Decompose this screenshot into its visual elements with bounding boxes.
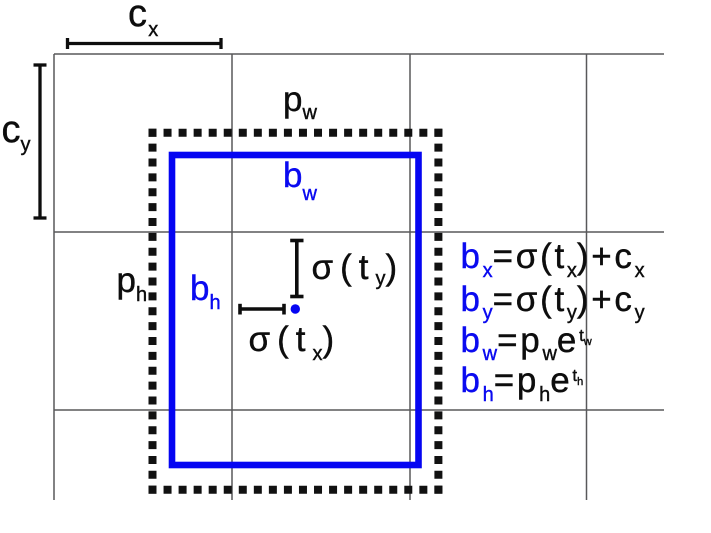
grid vertical line 3	[409, 54, 411, 500]
grid vertical line 2	[231, 54, 233, 500]
sigma(t_x) offset bracket	[240, 304, 284, 315]
equation b_y	[461, 282, 645, 317]
equation b_w	[461, 323, 592, 358]
equation b_x	[461, 239, 645, 274]
grid horizontal line 2	[54, 231, 664, 233]
label p_h	[117, 263, 148, 298]
equation b_h	[461, 363, 584, 398]
grid vertical line 4	[586, 54, 588, 500]
label b_w	[283, 158, 317, 193]
label c_x	[128, 0, 158, 33]
box center point (blue dot)	[291, 304, 300, 313]
prior anchor box (dotted) bottom edge	[149, 486, 443, 494]
grid vertical line 1	[53, 54, 55, 500]
prior anchor box (dotted) right edge	[434, 129, 442, 494]
label p_w	[283, 82, 317, 117]
sigma(t_y) offset bracket	[290, 241, 303, 297]
grid horizontal line 1	[54, 53, 664, 55]
c_y dimension bracket	[34, 65, 47, 218]
c_x dimension bracket	[68, 38, 222, 49]
label sigma(t_y)	[312, 250, 405, 285]
label sigma(t_x)	[249, 322, 342, 357]
label b_h	[190, 271, 221, 306]
label c_y	[2, 111, 31, 149]
predicted bounding box (blue)	[172, 155, 419, 465]
grid horizontal line 3	[54, 409, 664, 411]
prior anchor box (dotted) top edge	[149, 129, 443, 137]
prior anchor box (dotted) left edge	[149, 129, 157, 494]
